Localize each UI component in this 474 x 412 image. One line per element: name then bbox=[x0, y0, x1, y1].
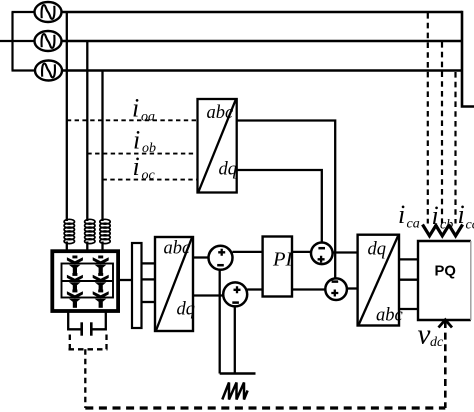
wire: phase b bus bbox=[62, 40, 463, 43]
dashed grid current sense a bbox=[427, 13, 429, 224]
svg-text:i: i bbox=[458, 200, 465, 229]
wire: dq block to PQ 3 bbox=[399, 308, 418, 310]
wire: tap a vertical bbox=[66, 12, 68, 221]
wire: converter to filter bar bbox=[118, 279, 132, 281]
svg-text:oa: oa bbox=[141, 110, 155, 125]
PI controller bbox=[263, 237, 292, 297]
wire: bar to abc block 1 bbox=[142, 262, 156, 264]
AC source Vb bbox=[35, 31, 62, 51]
arrow i_ca into PQ bbox=[423, 225, 437, 236]
filter bus bar bbox=[132, 243, 142, 328]
wire: tap b vertical bbox=[86, 41, 88, 221]
summer B bbox=[223, 282, 247, 306]
svg-text:dc: dc bbox=[430, 335, 444, 350]
wire: top block output d to summer D bbox=[237, 121, 336, 278]
dashed vdc sense right leg bbox=[105, 335, 107, 350]
wire: PI to summer C bbox=[292, 251, 312, 253]
svg-text:oc: oc bbox=[142, 168, 156, 183]
switch S6 bbox=[93, 290, 109, 308]
capacitor Cdc plate left bbox=[80, 322, 83, 335]
wire: left source bus vertical bbox=[11, 12, 13, 71]
switch S4 bbox=[93, 273, 109, 291]
svg-text:i: i bbox=[398, 200, 405, 229]
wire: stub from left edge to source b bbox=[0, 40, 35, 42]
svg-text:abc: abc bbox=[164, 238, 192, 258]
wire: carrier bar bbox=[220, 372, 256, 374]
svg-text:ca: ca bbox=[407, 217, 420, 232]
dashed grid current sense b bbox=[441, 42, 443, 224]
AC source Va bbox=[35, 2, 62, 22]
svg-text:i: i bbox=[132, 94, 139, 123]
dashed vdc sense left leg bbox=[69, 335, 71, 350]
wire: bar to abc block 2 bbox=[142, 278, 156, 280]
dashed current sense i_oa bbox=[67, 119, 198, 121]
wire: phase c bus bbox=[62, 69, 462, 72]
wire: tap b below coil bbox=[86, 242, 88, 252]
wire: tap c below coil bbox=[101, 242, 103, 252]
capacitor Cdc plate right bbox=[90, 322, 93, 335]
switch S3 bbox=[67, 273, 83, 291]
wire: bus to source c bbox=[12, 69, 37, 71]
converter inner frame bbox=[62, 264, 114, 298]
wire: PI to summer D bbox=[292, 288, 325, 290]
switch S1 bbox=[67, 256, 83, 274]
inductor La bbox=[64, 219, 74, 243]
arrow i_cb into PQ bbox=[435, 225, 449, 236]
svg-text:abc: abc bbox=[207, 103, 235, 123]
svg-text:dq: dq bbox=[219, 159, 238, 179]
transform block dq-abc bbox=[358, 235, 399, 326]
wire: bar to abc block 3 bbox=[142, 301, 156, 303]
wire: tap a below coil bbox=[66, 242, 68, 252]
wire: summer C to dq block bbox=[333, 251, 358, 253]
wire: summer A feedback down bbox=[219, 270, 221, 374]
summer C bbox=[311, 243, 333, 265]
svg-text:cc: cc bbox=[466, 218, 474, 233]
wire: converter middle row bbox=[62, 280, 114, 282]
svg-text:PQ: PQ bbox=[435, 264, 456, 280]
wire: summer D to dq block bbox=[347, 287, 358, 289]
dashed vdc sense bottom join bbox=[69, 348, 108, 350]
svg-text:ob: ob bbox=[142, 141, 156, 156]
wire: dq block to PQ 2 bbox=[399, 279, 418, 281]
wire: block to summer B bbox=[193, 294, 223, 296]
wire: bus to source a bbox=[12, 11, 36, 13]
wire: top block output q to summer C bbox=[237, 170, 322, 242]
wire: block to summer A bbox=[193, 256, 209, 258]
dashed current sense i_oc bbox=[103, 179, 198, 181]
summer D bbox=[325, 278, 347, 300]
dashed bottom feedback line bbox=[85, 406, 445, 409]
svg-text:i: i bbox=[133, 152, 140, 181]
wire: bus end vertical to load bbox=[462, 11, 474, 107]
wire: phase a bus bbox=[62, 11, 463, 14]
dashed grid current sense c bbox=[454, 72, 456, 224]
svg-text:v: v bbox=[418, 319, 431, 351]
svg-text:PI: PI bbox=[272, 249, 294, 271]
dashed vdc sense down bbox=[84, 349, 86, 408]
wire: dc leg right bbox=[92, 311, 106, 329]
arrow v_dc into PQ bottom bbox=[439, 320, 453, 328]
transform block abc-dq (converter current) bbox=[155, 237, 193, 331]
svg-text:i: i bbox=[133, 125, 140, 154]
dashed current sense i_ob bbox=[87, 153, 197, 155]
wire: summer A to PI bbox=[233, 251, 263, 253]
switch S5 bbox=[67, 290, 83, 308]
switch S2 bbox=[93, 256, 109, 274]
dashed v_dc sense bbox=[444, 321, 447, 408]
summer A bbox=[209, 246, 233, 270]
svg-text:dq: dq bbox=[368, 239, 387, 259]
wire: summer B feedback down bbox=[234, 306, 236, 373]
wire: dq block to PQ 1 bbox=[399, 258, 418, 260]
svg-text:dq: dq bbox=[177, 300, 196, 320]
inductor Lc bbox=[100, 219, 110, 243]
sawtooth carrier symbol bbox=[222, 383, 247, 400]
svg-text:i: i bbox=[432, 201, 439, 230]
wire: summer B to PI bbox=[247, 288, 262, 290]
wire: dc leg left bbox=[68, 311, 81, 329]
transform block abc-dq (current reference) bbox=[198, 99, 237, 193]
svg-text:cb: cb bbox=[440, 218, 453, 233]
AC source Vc bbox=[35, 61, 62, 81]
arrow i_cc into PQ bbox=[449, 225, 463, 236]
wire: tap c vertical bbox=[101, 71, 103, 222]
PQ block bbox=[418, 241, 471, 320]
converter box bbox=[52, 251, 118, 311]
inductor Lb bbox=[85, 219, 95, 243]
